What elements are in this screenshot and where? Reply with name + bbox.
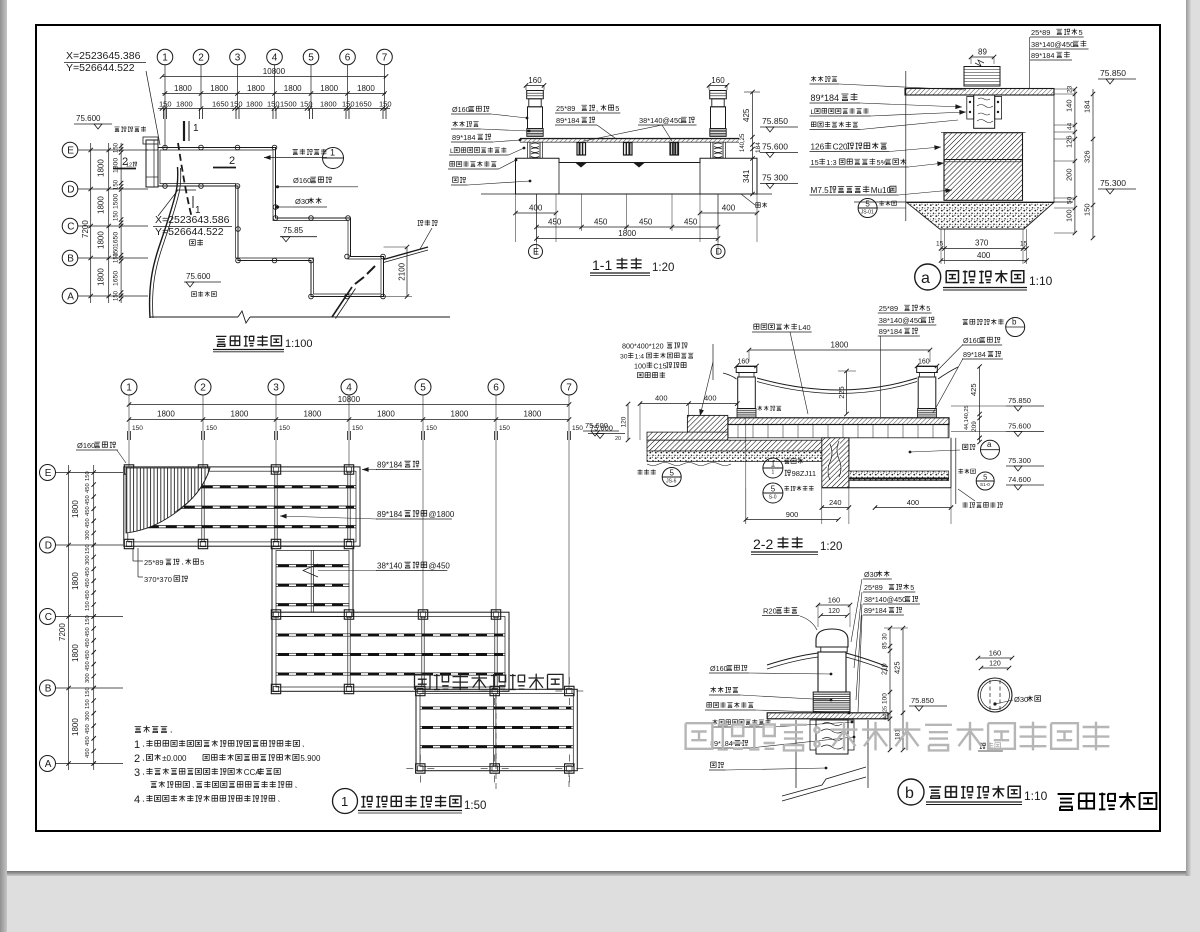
svg-text:3: 3 (235, 53, 241, 64)
svg-text:C15: C15 (653, 361, 666, 370)
svg-text:150: 150 (352, 425, 363, 432)
svg-text:D: D (45, 541, 52, 552)
svg-text:89*184: 89*184 (556, 116, 579, 125)
svg-text:1800: 1800 (97, 159, 106, 177)
svg-text:150: 150 (230, 100, 243, 109)
svg-text:100: 100 (1065, 209, 1074, 222)
svg-text:S-0: S-0 (769, 495, 777, 501)
svg-text:JS-01: JS-01 (861, 210, 874, 216)
svg-text:160: 160 (989, 649, 1002, 658)
svg-text:450: 450 (85, 518, 91, 528)
svg-text:L: L (450, 148, 454, 155)
svg-text:2-2: 2-2 (753, 536, 773, 552)
svg-text:150: 150 (114, 252, 120, 263)
svg-text:X=2523643.586: X=2523643.586 (155, 214, 230, 226)
svg-text:1800: 1800 (71, 500, 80, 518)
svg-text:89*184: 89*184 (811, 93, 840, 103)
svg-text:JS-6: JS-6 (666, 479, 677, 485)
svg-text:10800: 10800 (338, 395, 361, 404)
svg-text:4: 4 (346, 383, 352, 394)
svg-text:450: 450 (85, 506, 91, 516)
svg-text:100: 100 (634, 361, 646, 370)
svg-text:2: 2 (198, 53, 204, 64)
svg-text:1800: 1800 (451, 410, 469, 419)
svg-text:150: 150 (342, 100, 355, 109)
svg-text:225: 225 (837, 386, 846, 399)
svg-text:1500: 1500 (113, 194, 120, 209)
svg-text:2: 2 (134, 753, 140, 765)
svg-text:b: b (905, 785, 914, 802)
svg-text:1800: 1800 (247, 84, 265, 93)
svg-text:160: 160 (528, 76, 542, 85)
svg-text:370*370: 370*370 (144, 575, 172, 584)
svg-text:6: 6 (345, 53, 351, 64)
svg-text:450: 450 (85, 748, 91, 758)
svg-text:75.600: 75.600 (76, 114, 101, 123)
svg-text:1800: 1800 (831, 341, 849, 350)
svg-text:7: 7 (566, 383, 572, 394)
svg-text:1: 1 (162, 53, 168, 64)
svg-text:38*140: 38*140 (377, 562, 403, 571)
svg-text:A: A (67, 292, 74, 303)
svg-text:126: 126 (1065, 135, 1074, 148)
svg-text:1800: 1800 (284, 84, 302, 93)
svg-text:1800: 1800 (618, 229, 636, 238)
svg-text:38*140@450: 38*140@450 (639, 116, 682, 125)
svg-text:425: 425 (742, 108, 751, 122)
svg-text:20: 20 (615, 436, 621, 442)
svg-text:450: 450 (85, 483, 91, 493)
svg-text:44,140,25: 44,140,25 (964, 406, 970, 430)
svg-text:1-1: 1-1 (592, 257, 612, 273)
svg-text:Ø160: Ø160 (293, 176, 311, 185)
svg-text:1800: 1800 (97, 231, 106, 249)
svg-text:75.850: 75.850 (762, 116, 788, 126)
svg-text:M7.5: M7.5 (811, 186, 830, 195)
svg-text:75.600: 75.600 (762, 142, 788, 152)
svg-text:1: 1 (134, 739, 140, 751)
svg-text:X=2523645.386: X=2523645.386 (66, 50, 141, 62)
svg-text:1800: 1800 (304, 410, 322, 419)
svg-text:75.850: 75.850 (911, 696, 934, 705)
svg-text:300: 300 (85, 530, 91, 540)
svg-text:6: 6 (493, 383, 499, 394)
svg-text:,: , (596, 104, 598, 113)
svg-text:300: 300 (85, 673, 91, 683)
svg-text:@1800: @1800 (428, 510, 454, 519)
svg-text:2: 2 (229, 155, 235, 167)
svg-text:25*89: 25*89 (1031, 28, 1050, 37)
svg-text:150: 150 (85, 687, 91, 697)
svg-text:25*89: 25*89 (864, 583, 883, 592)
svg-text:38*140@450: 38*140@450 (1031, 40, 1074, 49)
svg-text:b: b (1012, 318, 1017, 327)
svg-text:A: A (45, 759, 52, 770)
svg-text:50: 50 (1067, 196, 1074, 204)
svg-text:Ø160: Ø160 (963, 336, 981, 345)
svg-text:75.850: 75.850 (1100, 68, 1126, 78)
svg-text:450: 450 (85, 590, 91, 600)
svg-text:140,25: 140,25 (740, 133, 746, 152)
svg-text:341: 341 (742, 169, 751, 183)
svg-text:1:10: 1:10 (1029, 274, 1053, 288)
svg-text:200: 200 (1065, 168, 1074, 181)
svg-text:E: E (45, 468, 52, 479)
svg-text:38*140@450: 38*140@450 (864, 595, 906, 604)
svg-text:1500: 1500 (280, 100, 297, 109)
svg-text:400: 400 (655, 394, 668, 403)
svg-text:98ZJ11: 98ZJ11 (792, 469, 816, 478)
svg-text:1650: 1650 (113, 271, 120, 286)
svg-text:75.850: 75.850 (1008, 396, 1031, 405)
svg-text:E: E (533, 247, 539, 257)
svg-text:150: 150 (379, 100, 392, 109)
svg-text:5: 5 (910, 583, 914, 592)
svg-text:150: 150 (426, 425, 437, 432)
svg-text:450: 450 (85, 627, 91, 637)
svg-text:184: 184 (1083, 100, 1092, 113)
svg-text:150: 150 (85, 601, 91, 611)
svg-text:150: 150 (206, 425, 217, 432)
svg-text:1: 1 (330, 148, 335, 158)
svg-text:1800: 1800 (524, 410, 542, 419)
svg-text:300: 300 (85, 555, 91, 565)
svg-text:160: 160 (738, 359, 750, 366)
svg-text:150: 150 (114, 290, 120, 301)
svg-text:5: 5 (420, 383, 426, 394)
svg-text:89*184: 89*184 (1031, 51, 1054, 60)
svg-text:5: 5 (615, 104, 619, 113)
svg-text:D: D (716, 247, 723, 257)
svg-text:75.600: 75.600 (1008, 422, 1031, 431)
svg-text:C: C (67, 222, 74, 233)
svg-text:160: 160 (711, 76, 725, 85)
svg-text:150: 150 (132, 425, 143, 432)
svg-text:30: 30 (883, 633, 889, 640)
svg-text:450: 450 (85, 567, 91, 577)
svg-text:1650: 1650 (212, 100, 229, 109)
svg-text:30: 30 (620, 354, 628, 361)
svg-text:150: 150 (85, 471, 91, 481)
svg-text:44: 44 (883, 714, 889, 720)
svg-text:210: 210 (882, 663, 889, 675)
svg-text:75.600: 75.600 (186, 272, 211, 281)
svg-text:450: 450 (85, 578, 91, 588)
svg-text:1800: 1800 (71, 572, 80, 590)
svg-text:1:4: 1:4 (635, 354, 645, 361)
svg-text:150: 150 (85, 615, 91, 625)
svg-text:D: D (67, 185, 74, 196)
svg-text:12: 12 (126, 163, 132, 169)
svg-text:400: 400 (907, 498, 920, 507)
svg-text:1:50: 1:50 (464, 800, 486, 812)
svg-text:R20: R20 (763, 607, 777, 616)
svg-text:Ø160: Ø160 (710, 664, 728, 673)
svg-text:4: 4 (272, 53, 278, 64)
svg-text:150: 150 (300, 100, 313, 109)
svg-text:@450: @450 (428, 562, 450, 571)
svg-text:4: 4 (134, 794, 140, 806)
svg-text:5: 5 (200, 558, 204, 567)
svg-text:5: 5 (308, 53, 314, 64)
svg-text:1800: 1800 (97, 196, 106, 214)
svg-text:B: B (45, 684, 52, 695)
svg-text:150: 150 (572, 425, 583, 432)
svg-text:1:3: 1:3 (826, 158, 836, 167)
svg-text:Y=526644.522: Y=526644.522 (155, 226, 224, 238)
svg-text:25*89: 25*89 (556, 104, 575, 113)
svg-text:150: 150 (85, 699, 91, 709)
svg-text:44: 44 (1067, 122, 1074, 130)
svg-text:160: 160 (828, 596, 841, 605)
svg-text:1:100: 1:100 (285, 338, 313, 350)
svg-text:1800: 1800 (174, 84, 192, 93)
svg-text:150: 150 (279, 425, 290, 432)
svg-text:450: 450 (85, 661, 91, 671)
svg-text:1800: 1800 (176, 100, 193, 109)
svg-text:1:10: 1:10 (1024, 789, 1048, 803)
svg-text:E: E (67, 146, 74, 157)
svg-text:150: 150 (499, 425, 510, 432)
svg-text:Ø30: Ø30 (1014, 695, 1028, 704)
svg-text:B: B (67, 254, 74, 265)
svg-text:89*184: 89*184 (377, 461, 403, 470)
svg-text:150: 150 (114, 210, 120, 221)
svg-text:150: 150 (1083, 203, 1092, 216)
svg-text:450: 450 (594, 218, 608, 227)
svg-text:7: 7 (382, 53, 388, 64)
svg-text:1800: 1800 (157, 410, 175, 419)
svg-text:400: 400 (722, 204, 736, 213)
svg-text:120: 120 (828, 608, 840, 615)
svg-text:450: 450 (85, 650, 91, 660)
svg-text:150: 150 (159, 100, 172, 109)
svg-text:89*184: 89*184 (864, 606, 887, 615)
svg-text:Mu10: Mu10 (871, 186, 892, 195)
svg-text:1: 1 (193, 123, 199, 134)
svg-text:1:20: 1:20 (652, 262, 674, 274)
svg-text:184: 184 (755, 142, 762, 153)
svg-text:400: 400 (977, 251, 991, 260)
svg-text:1800: 1800 (377, 410, 395, 419)
svg-text:400: 400 (704, 394, 717, 403)
svg-text:89*184: 89*184 (452, 133, 475, 142)
svg-text:150: 150 (114, 179, 120, 190)
svg-text:89: 89 (978, 48, 987, 57)
svg-text:425: 425 (893, 661, 902, 674)
svg-text:150: 150 (267, 100, 280, 109)
svg-text:1800: 1800 (71, 718, 80, 736)
svg-text:450: 450 (85, 495, 91, 505)
svg-text:Ø160: Ø160 (452, 105, 470, 114)
svg-text:S1-0: S1-0 (980, 482, 990, 487)
svg-text:1: 1 (126, 383, 132, 394)
svg-text:10800: 10800 (263, 67, 286, 76)
svg-text:2100: 2100 (398, 262, 407, 280)
svg-text:240: 240 (829, 498, 842, 507)
svg-text:150: 150 (85, 544, 91, 554)
svg-text:5: 5 (670, 469, 675, 478)
svg-text:5: 5 (926, 304, 930, 313)
svg-text:15: 15 (811, 158, 819, 167)
svg-text:75.300: 75.300 (1008, 456, 1031, 465)
svg-text:L40: L40 (798, 323, 810, 332)
svg-text:1800: 1800 (246, 100, 263, 109)
svg-text:a: a (921, 270, 930, 287)
svg-text:150: 150 (114, 142, 120, 153)
svg-text:3: 3 (134, 767, 140, 779)
svg-text:1800: 1800 (231, 410, 249, 419)
svg-text:2: 2 (200, 383, 206, 394)
svg-text:800*400*120: 800*400*120 (622, 342, 664, 351)
svg-text:89*184: 89*184 (377, 510, 403, 519)
svg-text:450: 450 (85, 724, 91, 734)
svg-text:450: 450 (85, 638, 91, 648)
svg-text:900: 900 (786, 510, 799, 519)
svg-text:89*184: 89*184 (879, 327, 902, 336)
svg-text:5: 5 (1079, 28, 1083, 37)
svg-text:Ø30: Ø30 (864, 570, 878, 579)
svg-text:450: 450 (548, 218, 562, 227)
svg-text:1: 1 (771, 460, 776, 469)
svg-text:89*184: 89*184 (963, 350, 986, 359)
svg-text:3: 3 (273, 383, 279, 394)
svg-text:425: 425 (969, 383, 978, 396)
svg-text:1800: 1800 (357, 84, 375, 93)
svg-text:1: 1 (341, 794, 348, 809)
svg-text:160: 160 (918, 359, 930, 366)
svg-text:7200: 7200 (81, 220, 90, 238)
svg-text:±0.000: ±0.000 (162, 754, 187, 763)
svg-text:450: 450 (639, 218, 653, 227)
svg-text:Ø30: Ø30 (295, 197, 309, 206)
svg-text:Y=526644.522: Y=526644.522 (66, 62, 135, 74)
svg-text:1800: 1800 (113, 158, 120, 173)
svg-text:450: 450 (684, 218, 698, 227)
svg-text:1:20: 1:20 (820, 541, 842, 553)
svg-text:38*140@450: 38*140@450 (879, 316, 922, 325)
svg-text:100: 100 (882, 693, 889, 704)
svg-text:25: 25 (883, 706, 889, 712)
svg-text:1800: 1800 (210, 84, 228, 93)
svg-text:a: a (987, 440, 992, 449)
svg-text:400: 400 (529, 204, 543, 213)
svg-text:Ø160: Ø160 (77, 441, 95, 450)
svg-text:75 300: 75 300 (762, 173, 788, 183)
svg-text:120: 120 (989, 661, 1001, 668)
svg-text:120: 120 (621, 416, 628, 427)
svg-text:5: 5 (983, 473, 987, 482)
svg-text:1800: 1800 (320, 100, 337, 109)
svg-text:7200: 7200 (58, 623, 67, 641)
svg-text:C: C (45, 612, 52, 623)
svg-text:450: 450 (85, 736, 91, 746)
svg-text:L: L (811, 109, 815, 116)
svg-text:1800: 1800 (97, 268, 106, 286)
svg-text:209: 209 (971, 421, 978, 432)
svg-text:370: 370 (975, 239, 989, 248)
svg-text:74.600: 74.600 (1008, 475, 1031, 484)
svg-text:1650: 1650 (355, 100, 372, 109)
svg-text:25*89: 25*89 (879, 304, 898, 313)
svg-text:25*89: 25*89 (144, 558, 164, 567)
svg-text:75.600: 75.600 (585, 421, 608, 430)
svg-text:75.300: 75.300 (1100, 178, 1126, 188)
svg-text:1800: 1800 (71, 644, 80, 662)
svg-text:85: 85 (883, 642, 889, 649)
svg-text:75.85: 75.85 (283, 226, 304, 235)
svg-text:140: 140 (1065, 99, 1074, 112)
svg-text:5.900: 5.900 (300, 754, 321, 763)
svg-text:300: 300 (85, 711, 91, 721)
svg-text:1800: 1800 (320, 84, 338, 93)
svg-text:C20: C20 (833, 143, 848, 152)
svg-text:1: 1 (772, 470, 775, 476)
svg-text:5: 5 (865, 200, 870, 209)
svg-text:326: 326 (1083, 150, 1092, 163)
svg-text:5: 5 (771, 485, 776, 494)
svg-text:1650: 1650 (113, 232, 120, 247)
svg-text:15: 15 (936, 241, 944, 248)
svg-text:126: 126 (811, 143, 825, 152)
